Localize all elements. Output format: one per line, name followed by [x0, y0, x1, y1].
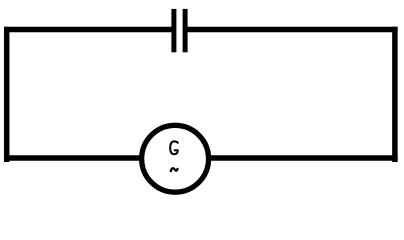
generator G label [170, 141, 178, 154]
wire top-right segment [187, 27, 398, 33]
wire left side [4, 27, 10, 162]
wire top-left segment [4, 27, 172, 33]
capacitor C1 left plate [171, 9, 176, 52]
wire right side [392, 27, 398, 162]
wire bottom-right segment [210, 155, 398, 161]
generator AC tilde symbol [171, 168, 178, 171]
capacitor C1 right plate [183, 9, 188, 52]
generator G circle [142, 125, 209, 192]
wire bottom-left segment [4, 155, 141, 161]
